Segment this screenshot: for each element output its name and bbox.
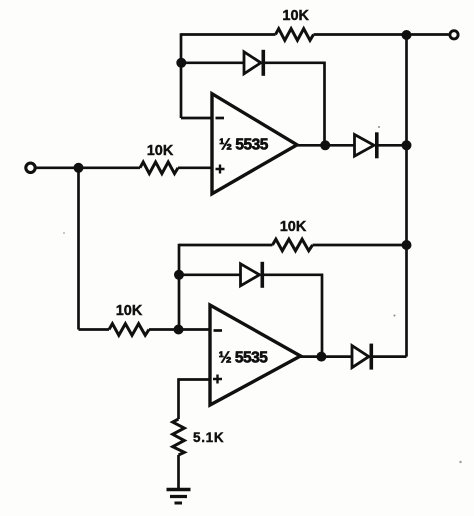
scan speck [459,461,461,463]
wire: resistor R5 to ground [177,455,180,488]
resistor R1 10K (top feedback) [276,29,314,41]
node: top right junction [402,30,412,40]
resistor R4 10K (input, stage2) [109,324,149,336]
wire: stage2 feedback diode row left [179,273,241,276]
diode D3 (stage2 feedback) [241,262,263,288]
wire: non-inverting branch down to resistor R5 [177,378,180,419]
scan speck [63,232,65,234]
svg-text:½ 5535: ½ 5535 [219,350,269,367]
ground [167,490,191,504]
node: stage1 diode branch junction [176,58,186,68]
input terminal [26,163,35,172]
op-amp U2 [210,305,301,405]
wire: input branch vertical down [77,168,80,330]
resistor R5 5.1K (vertical) [173,419,185,455]
wire: stage2 feedback left vertical [178,244,181,330]
wire: stage1 feedback diode row left [181,61,244,64]
diode D1 (stage1 feedback) [244,50,263,76]
wire: to output terminal [407,33,449,36]
wire: stage2 inverting row from input branch [79,328,110,331]
node: stage2 diode branch junction [174,270,184,280]
svg-text:10K: 10K [116,303,143,319]
node: right bus / stage2 feedback junction [402,240,412,250]
op-amp U1 [212,94,297,194]
wire: op-amp U1 output row [297,144,355,147]
wire: resistor R2 to op-amp U1 non-inverting input [178,166,212,169]
wire: diode D4 to right bus [371,355,406,358]
svg-text:5.1K: 5.1K [193,430,224,445]
node: op-amp U2 output junction [316,352,326,362]
wire: inverting input stub op-amp U1 [181,117,212,120]
output terminal [450,31,458,39]
resistor R3 10K (stage2 feedback) [273,239,313,251]
wire: top feedback row right segment [314,33,407,36]
scan speck [378,126,380,128]
node: op-amp U1 output junction [320,140,330,150]
wire: resistor R4 to op-amp U2 inverting input [149,328,210,331]
wire: stage2 feedback row left segment [179,244,273,247]
svg-text:10K: 10K [280,219,307,235]
wire: stage2 feedback row right segment [313,244,407,247]
diode D2 (stage1 output) [355,132,377,158]
svg-text:10K: 10K [147,143,174,159]
wire: op-amp U2 non-inverting stub [179,378,211,381]
svg-text:10K: 10K [282,8,309,24]
wire: right vertical bus [405,35,408,357]
resistor R2 10K (input, stage1) [140,162,178,174]
node: input branch junction [74,163,84,173]
node: stage2 inverting input junction [174,325,184,335]
svg-text:½ 5535: ½ 5535 [219,137,269,154]
wire: stage1 feedback diode row right + drop to output [263,63,324,146]
wire: op-amp U2 output row [301,355,353,358]
node: right bus / stage1 output junction [402,140,412,150]
wire: top feedback row left segment [181,33,276,36]
wire: stage2 feedback diode row right + drop to output [262,275,322,357]
wire: diode D2 to right bus [377,144,407,147]
scan speck [394,315,396,317]
wire: left feedback vertical (node A) [180,33,183,118]
diode D4 (stage2 output) [352,344,371,370]
wire: input row to resistor R2 [36,166,140,169]
